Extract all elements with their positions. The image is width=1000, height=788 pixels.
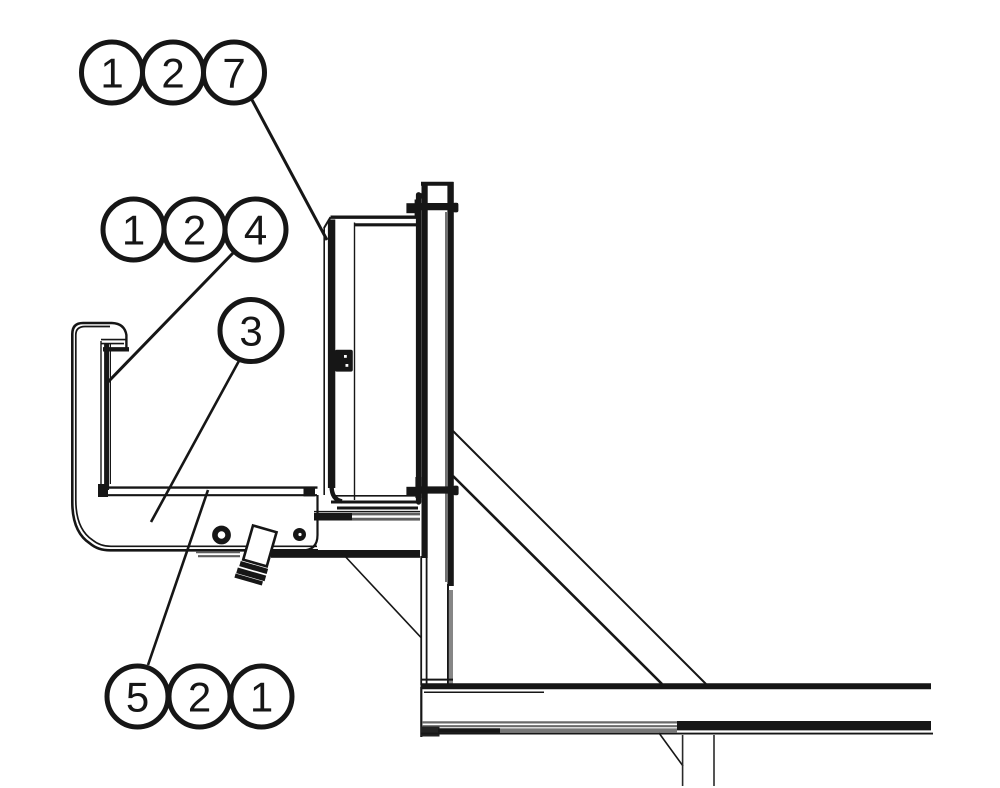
box inner panel line [354,223,356,501]
vertical member below rail right edge [713,735,715,786]
arm pivot bolt head [304,487,316,497]
diagonal brace lower line [453,476,662,684]
post inner thin line [445,212,447,582]
gusset under rail [659,733,683,766]
leader line from balloon 5 to arm top [148,490,208,665]
bottom bolt nub (right of post) [453,486,459,496]
clamp knob threaded shank [239,561,268,574]
rail top thick line [421,683,932,689]
balloon 2 (top row) [143,42,204,103]
post left wall lower thin lines [421,556,426,685]
thin diagonal from arm to post [342,553,421,638]
hook / arm top edge double lines [101,486,318,488]
svg-text:7: 7 [222,50,245,97]
vertical member below rail left edge [682,735,684,786]
leader line from balloon 3 to arm [151,359,240,522]
arm plate hole (right, dark) [293,528,306,541]
box top-left chamfer [324,217,331,228]
balloon 1 (middle row) [103,199,164,260]
upper mount bar thin lines [314,512,420,520]
clamp knob body [234,525,278,586]
bottom bolt band across post [417,486,458,493]
svg-text:2: 2 [188,674,211,721]
hook lip dark foot [103,347,129,351]
box bottom edge line 2 [331,501,418,504]
rail bottom thin line full width [421,733,933,735]
svg-text:1: 1 [100,50,123,97]
post right wall [447,182,453,586]
lower mount bar gray left segment [196,552,240,556]
svg-text:4: 4 [244,207,267,254]
lower mount bar dark segment [271,550,420,558]
arm plate right rounded end [302,495,318,550]
post bottom cross line [421,679,453,681]
box mounting flange [416,195,421,502]
balloon 1 (bottom row) [231,666,292,727]
rail bottom left gray lines [422,722,677,729]
top bolt nub (right of post) [453,203,459,213]
rail bottom gray continuation [500,728,677,732]
hook top-right corner and lip outer edge [112,323,126,348]
bottom flange tab [415,477,421,498]
leader line from balloon 4 to hook wall [107,252,234,383]
hook groove top lines [101,340,126,344]
hook inner elbow [98,484,108,497]
post left wall upper dark [422,182,428,558]
balloon 2 (bottom row) [169,666,230,727]
box top edge line 2 [355,223,421,226]
leader line from balloon 7 to box top corner [251,98,327,240]
top bolt band across post [417,203,458,210]
rail bottom left dark segment [421,727,440,737]
svg-text:3: 3 [239,308,262,355]
balloon 3 [220,300,282,362]
upper mount bar dark segment [314,513,352,520]
rail thin line below top [424,691,544,693]
top flange tab [417,193,423,198]
hook bracket outer contour inner twin [76,327,317,547]
rail left end [420,687,422,737]
box latch [335,350,353,372]
svg-text:2: 2 [183,207,206,254]
svg-text:2: 2 [161,50,184,97]
balloon 4 (middle row) [225,199,286,260]
top bolt head [406,203,415,213]
box bottom edge line 3 [337,507,418,510]
top bolt washers [416,199,419,216]
box bottom edge line 1 [333,495,417,497]
arm plate hole (left, ring) [215,528,228,541]
balloon 1 (top row) [82,42,143,103]
balloon 7 (top row) [204,42,265,103]
svg-text:1: 1 [250,674,273,721]
svg-text:1: 1 [122,207,145,254]
hook bracket outer contour [72,323,318,550]
balloon 5 (bottom row) [107,666,168,727]
bottom bolt head [406,487,415,496]
hook inner wall dark bar [104,344,109,490]
box door thin edge [323,227,325,495]
upper mount bar gray segment [352,514,420,519]
svg-text:5: 5 [126,674,149,721]
box top edge line 1 [331,215,422,218]
post top cap [421,182,454,186]
box door thick edge [328,220,335,489]
hook inner wall thin line [100,341,102,487]
rail bottom right thick line [677,721,931,730]
hook inner wall right thin line [109,344,111,484]
diagonal brace upper line [453,431,706,684]
balloon 2 (middle row) [164,199,225,260]
